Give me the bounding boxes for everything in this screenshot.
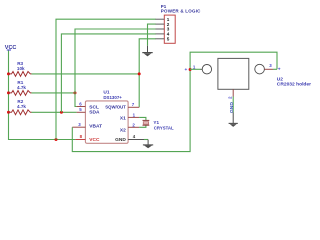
pin 5 <box>156 38 165 40</box>
pin 2 <box>156 23 165 25</box>
svg-text:4.7k: 4.7k <box>17 104 26 109</box>
pin 2 GND <box>232 89 234 96</box>
resistor R2 <box>9 99 32 115</box>
svg-text:Y1: Y1 <box>153 120 159 125</box>
svg-text:4.7k: 4.7k <box>17 85 26 90</box>
connector P1 <box>156 4 202 44</box>
pin 1 <box>156 18 165 20</box>
left clip circle <box>202 65 211 74</box>
pin 5 SDA <box>77 107 100 116</box>
battery holder U2 <box>185 58 312 113</box>
pin 3 <box>156 28 165 30</box>
pin 2 X2 <box>120 122 139 133</box>
wire P1 pin1 (VCC) <box>56 19 156 139</box>
svg-text:+: + <box>185 68 188 73</box>
wire P1 pin3 (SCL) <box>75 29 156 107</box>
wire R3 to SQW net <box>32 73 140 75</box>
node junction R3/SQW vertical <box>138 72 141 75</box>
node junction R1/SCL vertical <box>74 91 77 94</box>
svg-text:X2: X2 <box>120 127 126 133</box>
svg-text:VCC: VCC <box>89 137 100 143</box>
node junction battery + <box>189 68 192 71</box>
wire P1 pin5 (SQW) <box>139 39 156 108</box>
svg-text:POWER & LOGIC: POWER & LOGIC <box>161 8 201 13</box>
pin 7 SQW/OUT <box>105 102 139 109</box>
svg-text:+: + <box>278 67 281 72</box>
node junction VCC/R2 <box>7 111 10 114</box>
wire R2 to SDA pin <box>32 111 77 113</box>
ground at U1 GND pin <box>143 140 153 149</box>
node junction VCC row / P1 pin1 wire <box>55 138 58 141</box>
svg-text:GND: GND <box>115 137 126 143</box>
svg-text:SCL: SCL <box>89 104 99 110</box>
pin 1 X1 <box>120 112 139 121</box>
resistor R3 <box>9 61 32 76</box>
svg-text:SDA: SDA <box>89 110 100 116</box>
node junction VCC/R1 <box>7 91 10 94</box>
supply symbol VCC <box>5 45 17 51</box>
cell body box <box>218 58 249 89</box>
ground under battery <box>229 113 238 127</box>
svg-text:VBAT: VBAT <box>89 123 102 129</box>
svg-text:5: 5 <box>167 36 170 41</box>
pin 4 GND <box>115 134 144 143</box>
wire VBAT to bottom rail <box>72 52 277 151</box>
crystal Y1 wires <box>139 117 146 120</box>
resistor R1 <box>9 80 32 95</box>
pin 4 <box>156 33 165 35</box>
pin 8 VCC <box>75 134 100 143</box>
wire P1 pin4 (SDA) <box>61 34 155 112</box>
right clip circle <box>255 64 265 74</box>
wire R1 to SCL net <box>32 92 76 94</box>
pin 6 SCL <box>77 101 99 110</box>
svg-text:10k: 10k <box>17 66 25 71</box>
pin 3 + <box>265 68 274 70</box>
svg-text:DS1307+: DS1307+ <box>103 95 122 100</box>
ground under P1 <box>142 46 152 57</box>
IC U1 DS1307 RTC <box>85 90 128 144</box>
node junction R2/SDA vertical <box>60 111 63 114</box>
wire VCC rail vertical <box>9 51 76 140</box>
node junction VCC/R3 <box>7 72 10 75</box>
svg-text:CRYSTAL: CRYSTAL <box>154 125 174 130</box>
wire P1 pin2 (GND) <box>148 24 156 46</box>
crystal Y1 <box>143 120 174 130</box>
svg-text:X1: X1 <box>120 115 126 121</box>
svg-text:CR2032 holder: CR2032 holder <box>277 82 311 88</box>
pin 3 VBAT <box>72 122 102 129</box>
svg-text:GND: GND <box>229 102 235 113</box>
svg-text:SQW/OUT: SQW/OUT <box>105 104 126 109</box>
